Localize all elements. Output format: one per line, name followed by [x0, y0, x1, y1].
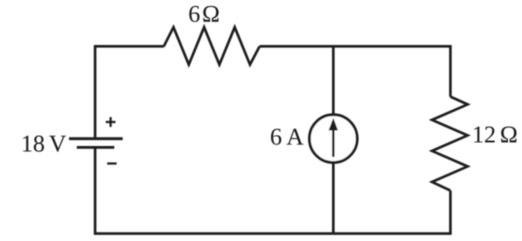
wire middle vertical top (top wire down to current source) [332, 46, 335, 114]
label 6 ohm [189, 6, 218, 22]
resistor 12ohm zigzag [432, 97, 468, 191]
current source arrow shaft [332, 129, 335, 158]
wire middle vertical bottom (current source to bottom wire) [332, 162, 335, 233]
resistor 6ohm zigzag [164, 27, 260, 64]
wire left vertical (battery bottom plate to bottom-left corner) [95, 147, 333, 233]
current source I1 circle [309, 115, 357, 163]
minus polarity mark [107, 162, 116, 164]
label 12 ohm [474, 127, 516, 143]
wire left vertical (top-left corner down to battery top plate) [95, 46, 164, 138]
label 6 A [271, 129, 304, 145]
plus polarity mark [106, 117, 116, 127]
wire right vertical (12ohm resistor to bottom-right corner) [333, 191, 450, 234]
wire top (resistor to top-right corner down to 12ohm resistor) [260, 46, 451, 96]
label 18 V [23, 136, 66, 152]
current source arrowhead [329, 118, 338, 131]
voltage source V1 battery top plate [69, 137, 123, 140]
voltage source V1 battery bottom plate [77, 146, 115, 149]
